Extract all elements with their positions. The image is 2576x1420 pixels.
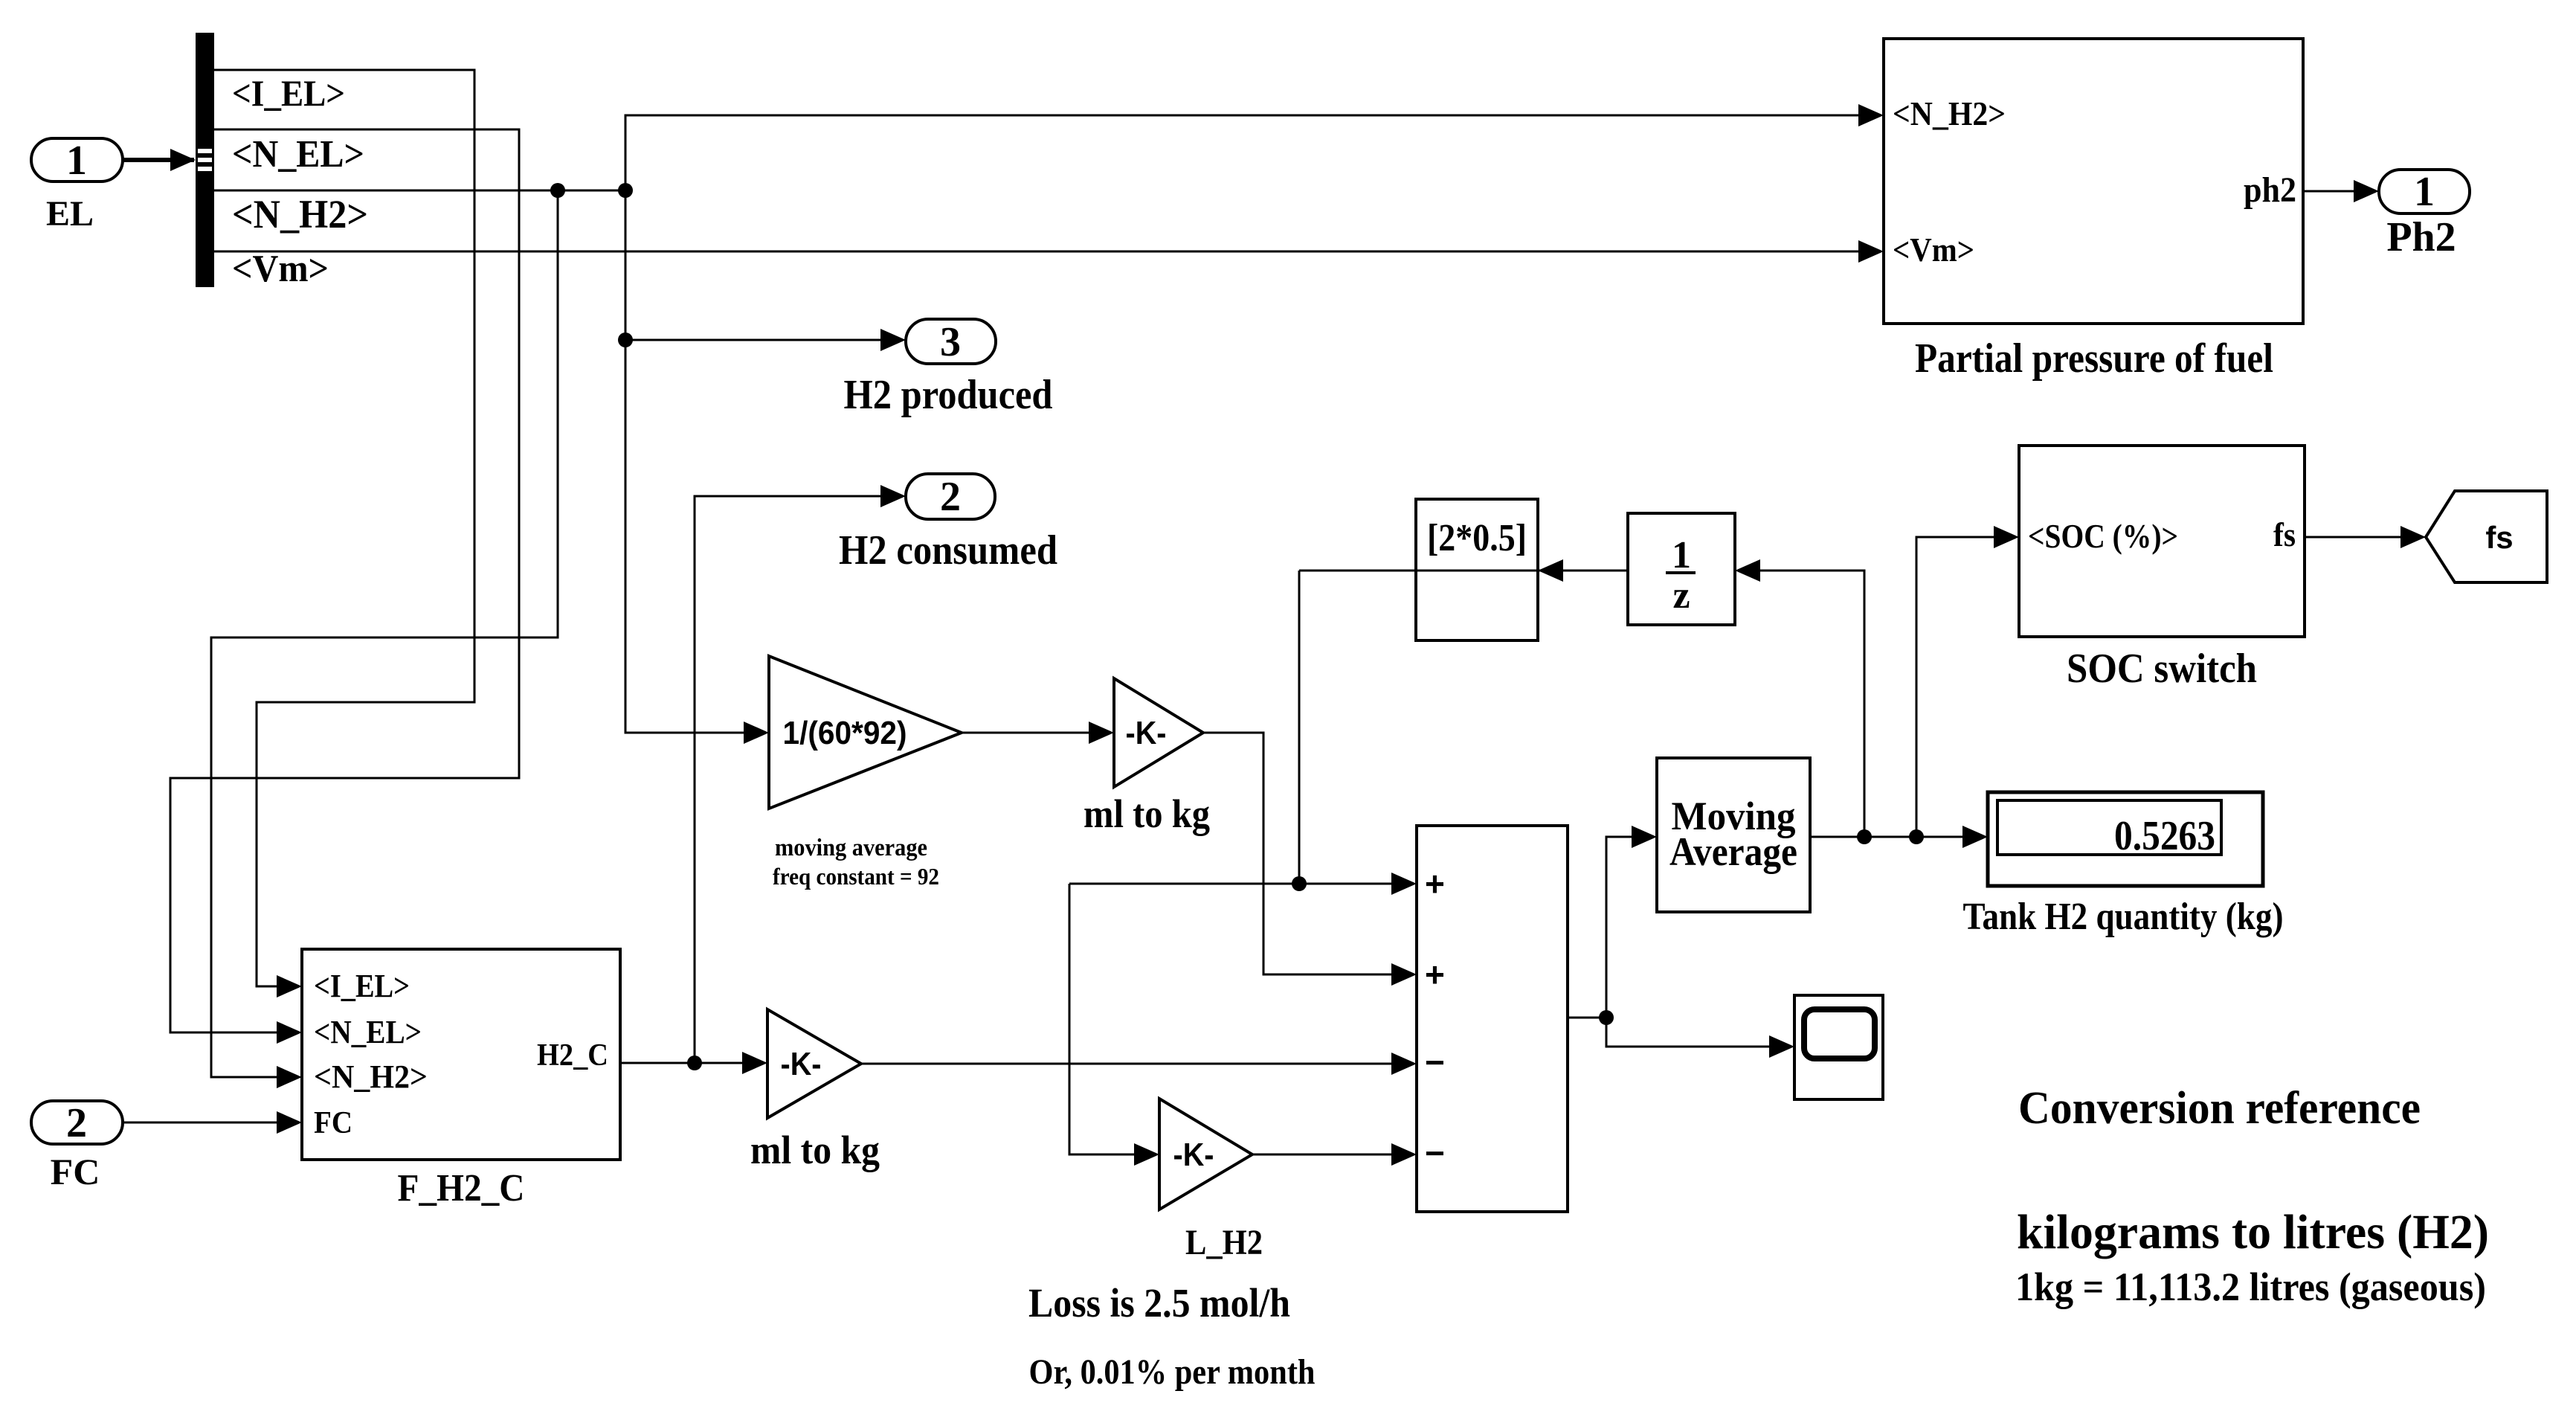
wire ml-to-kg top output to sum + input 2 [1203, 733, 1412, 974]
display value box [1997, 800, 2221, 855]
svg-text:moving average: moving average [775, 835, 927, 861]
wire Moving Average output to display [1810, 836, 1983, 838]
svg-text:kilograms to litres (H2): kilograms to litres (H2) [2017, 1205, 2489, 1259]
arrowhead into ml-to-kg bottom gain [742, 1052, 767, 1074]
svg-text:ph2: ph2 [2244, 170, 2296, 210]
wire gain 1/(60*92) to ml-to-kg gain [962, 732, 1110, 734]
scope screen [1804, 1009, 1875, 1058]
arrowhead into Partial pressure Vm [1858, 240, 1884, 263]
wire H2_C output to ml-to-kg gain [620, 1062, 763, 1064]
svg-text:-K-: -K- [1173, 1137, 1214, 1173]
wire bus row I_EL to F_H2_C input 1 [214, 70, 474, 986]
gain L_H2 [1159, 1099, 1252, 1209]
arrowhead into outport 2 [880, 485, 906, 507]
svg-text:FC: FC [314, 1106, 352, 1140]
svg-text:Or, 0.01% per month: Or, 0.01% per month [1029, 1352, 1316, 1392]
arrowhead into F_H2_C N_EL [277, 1021, 302, 1044]
inport 2 FC oval [31, 1101, 123, 1144]
svg-text:2: 2 [66, 1100, 87, 1146]
gain 1/(60*92) [769, 656, 962, 809]
bus selector hatch marks [198, 149, 212, 153]
wire sum output down to scope input [1606, 1018, 1790, 1047]
arrowhead into F_H2_C FC [277, 1111, 302, 1134]
wire feedback to 1/z input [1739, 571, 1864, 837]
scope block [1794, 995, 1883, 1099]
svg-text:−: − [1425, 1134, 1445, 1172]
svg-text:ml to kg: ml to kg [750, 1128, 880, 1172]
junction dot sum output [1599, 1010, 1614, 1025]
svg-text:Tank H2 quantity (kg): Tank H2 quantity (kg) [1963, 896, 2284, 938]
svg-text:1: 1 [1672, 534, 1691, 576]
svg-text:<N_H2>: <N_H2> [1893, 94, 2006, 132]
junction dot 1/z feedback [1857, 829, 1872, 844]
arrowhead into Moving Average [1632, 826, 1657, 848]
arrowhead into sum plus 1 [1391, 873, 1417, 895]
svg-text:<Vm>: <Vm> [1893, 231, 1974, 269]
arrowhead into goto tag fs [2400, 526, 2426, 548]
svg-text:fs: fs [2273, 515, 2296, 553]
svg-text:1: 1 [2414, 169, 2435, 215]
junction dot H2 produced branch [618, 332, 633, 347]
svg-text:1: 1 [66, 138, 87, 184]
subsystem block F_H2_C [302, 949, 620, 1160]
sum block [1417, 826, 1568, 1212]
svg-text:<I_EL>: <I_EL> [314, 968, 410, 1004]
svg-text:Conversion reference: Conversion reference [2018, 1083, 2421, 1134]
svg-text:<I_EL>: <I_EL> [232, 72, 345, 114]
wire bus row Vm to Partial pressure input [214, 251, 1879, 253]
svg-text:Partial pressure of fuel: Partial pressure of fuel [1915, 335, 2273, 382]
display block Tank H2 quantity [1988, 792, 2263, 886]
arrowhead into [2*0.5] right edge [1538, 559, 1563, 582]
svg-text:L_H2: L_H2 [1185, 1223, 1263, 1262]
wire bus row N_H2 [214, 190, 625, 192]
svg-text:Loss is 2.5 mol/h: Loss is 2.5 mol/h [1028, 1280, 1290, 1326]
junction dot SOC feedback [1909, 829, 1924, 844]
svg-text:2: 2 [940, 474, 961, 520]
junction dot tank capacity branch [1292, 876, 1307, 891]
arrowhead into sum minus 1 [1391, 1053, 1417, 1075]
svg-text:1kg = 11,113.2 litres (gaseous: 1kg = 11,113.2 litres (gaseous) [2015, 1265, 2486, 1309]
svg-text:z: z [1672, 574, 1690, 617]
arrowhead into display [1962, 826, 1988, 848]
svg-text:+: + [1425, 864, 1445, 903]
arrowhead into gain 1/(60*92) [744, 722, 769, 744]
constant block [2*0.5] [1416, 499, 1538, 640]
svg-text:H2_C: H2_C [537, 1038, 608, 1073]
wire SOC switch output to goto tag fs [2305, 536, 2421, 539]
svg-text:3: 3 [940, 319, 961, 365]
junction dot N_H2 row right [618, 183, 633, 198]
wire sum output up to Moving Average input [1606, 837, 1652, 1018]
svg-text:EL: EL [46, 194, 94, 234]
wire junction to sum + input 1 [1069, 883, 1412, 885]
junction dot N_H2 row left [550, 183, 565, 198]
svg-text:[2*0.5]: [2*0.5] [1427, 517, 1527, 559]
arrowhead into 1/z right edge [1735, 559, 1760, 582]
Moving Average block [1657, 758, 1810, 912]
wire ml-to-kg bottom output to sum minus input 1 [861, 1063, 1412, 1065]
svg-text:<Vm>: <Vm> [232, 248, 329, 290]
unit delay block 1/z [1628, 513, 1735, 625]
svg-text:FC: FC [51, 1151, 100, 1192]
gain ml to kg top [1114, 678, 1203, 787]
arrowhead into L_H2 gain [1134, 1143, 1159, 1166]
svg-text:-K-: -K- [1126, 715, 1167, 751]
wire H2_C branch up to outport 2 [695, 496, 901, 1063]
svg-text:ml to kg: ml to kg [1083, 791, 1210, 836]
svg-text:<SOC (%)>: <SOC (%)> [2028, 517, 2178, 555]
subsystem block SOC switch [2019, 446, 2305, 637]
bus selector bar [196, 33, 214, 287]
svg-text:<N_EL>: <N_EL> [232, 133, 364, 176]
wire N_H2 branch down to gain input [625, 190, 764, 733]
outport 2 oval [906, 474, 995, 519]
svg-text:Average: Average [1669, 829, 1797, 874]
svg-text:<N_H2>: <N_H2> [232, 192, 368, 237]
svg-text:SOC switch: SOC switch [2067, 646, 2257, 692]
wire sum output [1568, 1017, 1606, 1019]
inport 1 oval [31, 138, 123, 181]
wire N_H2 branch up to Partial pressure input [625, 115, 1879, 190]
svg-text:−: − [1425, 1043, 1445, 1082]
wire FC inport to F_H2_C [123, 1122, 297, 1124]
wire branch to outport 3 [625, 339, 901, 341]
outport 1 Ph2 oval [2379, 170, 2470, 213]
wire bus row N_EL to F_H2_C input 2 [170, 129, 519, 1032]
arrowhead into F_H2_C I_EL [277, 975, 302, 997]
svg-text:<N_EL>: <N_EL> [314, 1014, 422, 1050]
svg-text:<N_H2>: <N_H2> [314, 1058, 428, 1095]
svg-text:-K-: -K- [781, 1046, 822, 1082]
wire ph2 output to outport Ph2 [2303, 190, 2374, 193]
wire branch up to SOC switch input [1916, 537, 2015, 837]
arrowhead into outport 3 [880, 329, 906, 351]
svg-text:+: + [1425, 955, 1445, 994]
svg-text:H2 consumed: H2 consumed [839, 527, 1057, 574]
wire N_H2 branch to F_H2_C input 3 [211, 190, 558, 1077]
arrowhead into scope [1769, 1035, 1794, 1058]
svg-text:F_H2_C: F_H2_C [398, 1167, 525, 1209]
arrowhead into sum minus 2 [1391, 1143, 1417, 1166]
wire junction down to L_H2 gain input [1069, 884, 1155, 1154]
arrowhead into Partial pressure N_H2 [1858, 104, 1884, 126]
arrowhead into sum plus 2 [1391, 963, 1417, 986]
arrowhead EL into bus [170, 149, 196, 171]
svg-text:Ph2: Ph2 [2386, 214, 2456, 260]
arrowhead into ml-to-kg top gain [1089, 722, 1114, 744]
outport 3 oval [906, 319, 996, 364]
gain ml to kg bottom [767, 1009, 861, 1118]
wire [2*0.5] output down to junction [1298, 571, 1301, 884]
wire EL input to bus selector [123, 158, 194, 162]
svg-text:H2 produced: H2 produced [844, 372, 1053, 418]
svg-text:0.5263: 0.5263 [2114, 813, 2215, 859]
junction dot H2_C branch [687, 1056, 702, 1070]
arrowhead into SOC switch [1994, 526, 2019, 548]
svg-text:1/(60*92): 1/(60*92) [783, 715, 907, 751]
arrowhead into F_H2_C N_H2 [277, 1066, 302, 1088]
value 1/z fraction bar [1666, 571, 1696, 574]
svg-text:fs: fs [2485, 520, 2513, 555]
goto tag fs [2426, 491, 2547, 582]
wire 1/z output through [2*0.5] block [1299, 570, 1628, 572]
subsystem block Partial pressure of fuel [1884, 39, 2303, 324]
svg-text:freq constant = 92: freq constant = 92 [773, 863, 939, 890]
arrowhead into outport Ph2 [2354, 180, 2379, 202]
wire L_H2 output to sum minus input 2 [1252, 1154, 1412, 1156]
